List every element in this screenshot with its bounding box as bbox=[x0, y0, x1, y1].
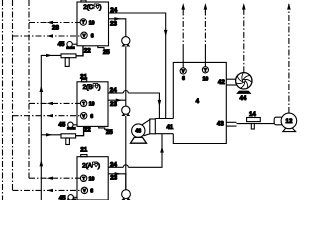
signal line T of column A bbox=[29, 177, 80, 179]
svg-text:23: 23 bbox=[110, 21, 117, 28]
column B top nozzle 21 bbox=[82, 80, 87, 82]
svg-text:T: T bbox=[204, 67, 207, 72]
column C vessel bbox=[77, 2, 109, 46]
blower 46 bbox=[141, 119, 150, 125]
signal line to pump 12 bbox=[288, 4, 290, 113]
svg-text:2(B: 2(B bbox=[83, 84, 93, 91]
svg-text:22: 22 bbox=[84, 126, 91, 133]
svg-text:12: 12 bbox=[286, 118, 293, 125]
bus line left 2 bbox=[12, 0, 14, 190]
svg-text:22: 22 bbox=[84, 47, 91, 54]
line 24 column B bbox=[108, 92, 123, 94]
nozzle 25 column C bbox=[98, 46, 104, 49]
line 24 column A bbox=[108, 166, 123, 168]
column B vessel bbox=[77, 82, 108, 127]
outlet 22 column C to sprayer B bbox=[76, 46, 83, 56]
bus line left 1 bbox=[2, 0, 4, 200]
liquid column pipe bbox=[125, 46, 127, 106]
instrument V6 column A bbox=[81, 187, 87, 193]
instrument V6 vessel 4 bbox=[182, 50, 184, 68]
svg-text:): ) bbox=[98, 162, 100, 169]
svg-text:10: 10 bbox=[89, 21, 95, 27]
line 43 with nozzle bbox=[226, 121, 236, 123]
pump 45 column A bbox=[68, 199, 76, 200]
instrument V6 column B bbox=[81, 113, 87, 119]
svg-text:): ) bbox=[98, 84, 100, 91]
nozzle 25 column B bbox=[99, 126, 109, 129]
svg-text:25: 25 bbox=[106, 129, 113, 136]
instrument T10 column C bbox=[80, 19, 86, 25]
column A vessel bbox=[77, 157, 108, 200]
svg-text:2(C: 2(C bbox=[83, 4, 94, 11]
svg-text:10: 10 bbox=[203, 76, 209, 82]
svg-text:24: 24 bbox=[110, 7, 117, 14]
svg-text:24: 24 bbox=[110, 161, 117, 168]
duct 41 bbox=[155, 118, 173, 120]
signal line up from V6 bbox=[182, 4, 184, 50]
svg-text:41: 41 bbox=[166, 124, 173, 131]
svg-text:46: 46 bbox=[135, 129, 141, 135]
svg-text:T: T bbox=[82, 101, 85, 106]
vessel 4 bbox=[173, 62, 226, 143]
svg-text:6: 6 bbox=[182, 76, 185, 82]
column A top nozzle 21 bbox=[81, 155, 87, 157]
signal line T of column B bbox=[29, 102, 80, 104]
signal line up from fan 44 bbox=[243, 4, 245, 72]
svg-text:44: 44 bbox=[239, 95, 246, 102]
svg-text:42: 42 bbox=[218, 79, 225, 86]
pump 45 column C bbox=[67, 47, 75, 49]
svg-text:45: 45 bbox=[58, 41, 65, 48]
line 23 column B bbox=[108, 99, 126, 101]
signal line V of column C bbox=[13, 35, 82, 37]
pump A circulation bbox=[122, 190, 131, 199]
svg-text:T: T bbox=[82, 20, 85, 25]
svg-text:21: 21 bbox=[80, 74, 87, 81]
signal line V of column A bbox=[13, 189, 82, 191]
svg-text:T: T bbox=[82, 176, 85, 181]
svg-text:43: 43 bbox=[217, 120, 224, 127]
riser branch to sprayer A bbox=[41, 134, 61, 136]
pump C circulation bbox=[122, 37, 130, 45]
fan 44 bbox=[236, 73, 252, 89]
line 23 column A bbox=[108, 174, 126, 190]
line 23 column C bbox=[109, 19, 126, 37]
svg-text:): ) bbox=[99, 4, 101, 11]
sprayer above column B bbox=[61, 54, 76, 58]
svg-text:2(A: 2(A bbox=[82, 162, 93, 169]
line 24 column C bbox=[109, 13, 166, 119]
svg-text:4: 4 bbox=[196, 98, 200, 105]
instrument T10 column A bbox=[80, 175, 86, 181]
svg-text:23: 23 bbox=[110, 175, 117, 182]
signal line up from T10 bbox=[204, 4, 206, 50]
svg-text:V: V bbox=[82, 113, 85, 118]
svg-text:6: 6 bbox=[91, 34, 94, 40]
svg-text:45: 45 bbox=[59, 195, 66, 200]
valve 14 bbox=[247, 118, 261, 122]
svg-text:6: 6 bbox=[90, 114, 93, 120]
svg-text:V: V bbox=[182, 69, 185, 74]
instrument T10 column B bbox=[80, 100, 86, 106]
svg-text:10: 10 bbox=[89, 176, 95, 182]
svg-text:23: 23 bbox=[110, 101, 117, 108]
riser pipe bbox=[41, 55, 61, 200]
outlet 22 column B to sprayer A bbox=[76, 126, 84, 135]
svg-text:10: 10 bbox=[89, 101, 95, 107]
pump 12 bbox=[274, 117, 283, 125]
instrument T10 vessel 4 bbox=[204, 50, 206, 67]
signal line 28 (T of column C) bbox=[29, 22, 80, 24]
svg-text:45: 45 bbox=[58, 121, 65, 128]
svg-text:28: 28 bbox=[52, 25, 59, 32]
pump 45 column B bbox=[67, 127, 75, 129]
bus line left 3 bbox=[28, 0, 30, 178]
instrument V6 column C bbox=[81, 32, 87, 38]
svg-text:V: V bbox=[83, 33, 86, 38]
pump B circulation bbox=[122, 106, 130, 114]
svg-text:V: V bbox=[83, 188, 86, 193]
column C top nozzle 21 bbox=[81, 0, 86, 2]
svg-text:21: 21 bbox=[80, 147, 87, 154]
svg-text:14: 14 bbox=[249, 111, 256, 118]
svg-text:25: 25 bbox=[103, 49, 110, 56]
svg-text:24: 24 bbox=[110, 87, 117, 94]
svg-text:6: 6 bbox=[90, 189, 93, 195]
signal line V of column B bbox=[13, 115, 81, 117]
line 42 to fan bbox=[226, 78, 237, 80]
sprayer above column A bbox=[61, 134, 76, 138]
